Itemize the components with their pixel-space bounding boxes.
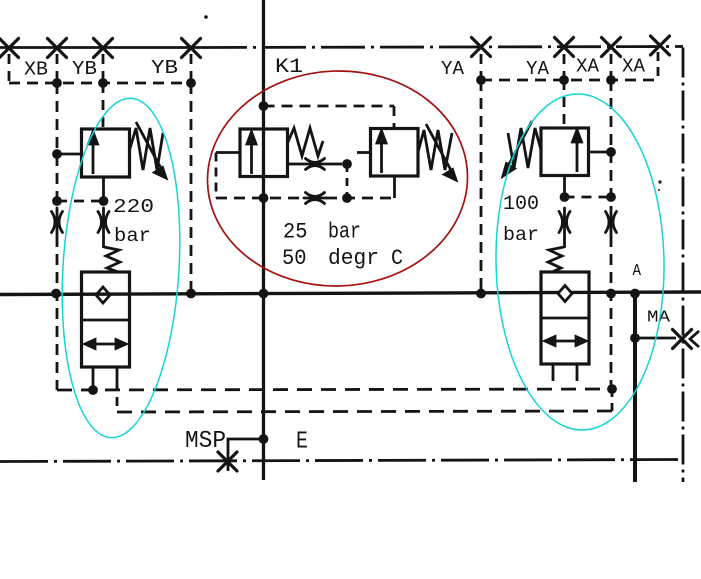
port X plug XA1 [602,38,621,57]
svg-text:50: 50 [282,246,307,271]
svg-text:XA: XA [576,56,600,78]
valve M2 arrow [377,131,386,173]
valve V1 spring [130,128,164,170]
svg-text:bar: bar [328,220,361,245]
svg-text:C: C [391,246,403,271]
wire mid drain bus y198 right [326,197,396,200]
wire XA2 stub down [657,52,660,80]
scan speck 2 [658,180,661,183]
valve V1 arrow [89,132,98,174]
manifold boundary top rail (dash-dot) [203,47,683,48]
wire YA1 stub down [480,54,483,80]
valve M1 spring [288,128,324,156]
node K1 drain [259,193,269,203]
node j347-198 [342,193,352,203]
scan speck [204,15,208,19]
wire right pilot bus y80 [481,79,658,82]
wire left pilot column x57 lower [56,236,59,390]
wire column x103 to valve top [102,83,105,129]
manifold boundary bottom rail (dash-dot) [0,460,683,462]
scan speck 3 [658,189,660,191]
restrictor x103 [98,208,109,236]
port X plug YA2 [555,38,574,57]
wire leg x117 down to L2 [116,382,119,412]
wire M2 drain down [393,177,396,199]
svg-text:XA: XA [622,56,646,78]
wire MA branch [635,337,676,340]
node j93-390 [88,385,98,395]
svg-text:220: 220 [113,196,154,218]
svg-text:A: A [633,262,642,281]
check block right divider [541,317,589,320]
valve V1 adjust arrow [136,122,166,178]
restrictor mid lower [304,193,326,204]
svg-text:bar: bar [114,225,151,247]
wire V1 bottom port [102,177,105,197]
svg-text:25: 25 [283,220,308,245]
svg-text:MSP: MSP [185,428,226,455]
wire YA2 stub down [563,54,566,80]
wire column x481 down to main line [480,80,483,294]
valve R adjust arrow [503,121,532,176]
node j611-197 [606,192,616,202]
wire j57-j103 link [57,200,104,203]
MA coupling chevron [690,331,699,347]
node j481-293 [476,289,486,299]
manifold boundary right edge (dash-dot) [682,48,685,483]
wire XA1 stub down [610,54,613,80]
svg-text:YA: YA [441,58,465,80]
wire drain bus L2 y412 [117,411,612,412]
port X plug YB2 [182,39,201,58]
valve V1 220bar relief: body [82,129,130,177]
svg-text:bar: bar [503,224,539,246]
valve R 100bar body [541,128,589,176]
valve M2 body [371,129,419,177]
svg-text:XB: XB [24,59,48,81]
MSP elbow [228,439,264,471]
svg-text:100: 100 [503,193,539,216]
node j611-152 [606,147,616,157]
wire below restrictor x103 [102,236,105,248]
wire column x191 down to main line [190,83,193,294]
wire XB stub down [8,54,11,83]
port X plug XA2 [651,36,670,55]
check block left double arrow [85,340,126,349]
valve R spring left [508,128,541,168]
port X MA [673,330,692,349]
wire restr to node [326,163,342,166]
wire j564-j611 link [565,196,612,199]
node j57-83 [52,78,62,88]
wire valve R right port [589,151,612,154]
wire M1 left stub [216,151,240,154]
check block right diamond [558,286,572,302]
wire M2 left stub [357,151,371,154]
port X plug YB1 [94,39,113,58]
restrictor left x57 [52,208,63,236]
svg-text:YB: YB [72,58,97,80]
wire below restrictor x564 [563,236,566,248]
node j481-80 [476,75,486,85]
wire XB horizontal pilot bus left y83 [9,82,191,85]
valve M1 body [240,129,288,177]
node E [259,434,269,444]
wire L2 right riser [611,389,614,411]
A line vertical [633,293,637,482]
valve M2 spring [418,130,452,170]
node j611-80 [606,75,616,85]
wire YB1b stub down [102,54,105,83]
node j57-293 [51,289,61,299]
check block left divider [82,319,130,322]
node j191-293 [186,289,196,299]
node j347-164 [342,159,352,169]
manifold boundary top rail solid left part [0,46,203,49]
check block left diamond [96,287,110,303]
svg-text:E: E [296,429,308,456]
restrictor mid upper [304,159,326,170]
wire K1 pilot top dashed [264,105,395,108]
check block left: body [82,272,130,367]
annotation cyan ellipse left [53,95,190,441]
node j635-293 [630,289,640,299]
node j57-154 [52,149,62,159]
spring above right check block [548,247,564,272]
port X plug XB [48,39,67,58]
node j191-83 [186,78,196,88]
valve R arrow [573,130,582,172]
wire M2 top entry [393,106,396,129]
annotation red ellipse [204,67,471,291]
node j57-201 [52,196,62,206]
wire restrictor mid feed [288,163,304,166]
check block right double arrow [545,337,586,346]
annotation cyan ellipse right [493,93,667,432]
wire V1 left port [57,153,82,156]
wire column x611 lower [610,236,613,389]
wire column x564 to valve R top [563,80,566,128]
node j103-83 [98,78,108,88]
node j635-338 [630,333,640,343]
valve M2 adjust arrow [426,124,456,180]
wire YB2 stub down [190,54,193,83]
wire mid drain bus y198 [216,197,304,200]
svg-text:degr: degr [328,246,379,271]
port X plug XB outer [0,39,19,58]
node j564-80 [559,75,569,85]
svg-text:YA: YA [526,58,550,80]
K1 vertical line [262,0,265,480]
valve M1 arrow [247,132,256,174]
main pressure line P [0,292,701,295]
node j611-293 [606,289,616,299]
check block right body [541,272,589,364]
port X MSP [218,452,237,471]
port X plug YA1 [472,38,491,57]
svg-text:YB: YB [151,57,178,79]
wire j347 down [346,164,349,198]
wire column x611 [610,80,613,208]
restrictor x564 [559,208,570,236]
node K1 main [259,289,269,299]
check block left legs [92,367,95,390]
check block right legs [552,364,555,381]
wire valve R bottom port [563,176,566,194]
node j564-197 [560,192,570,202]
node j612-389 [607,384,617,394]
node K1 pilot [259,101,269,111]
wire left pilot column x57 upper [56,83,59,208]
restrictor x611 [606,208,617,236]
wire drain bus L1 y390 [57,389,612,390]
spring above left check block [104,247,120,272]
wire M1 left drain down [215,153,218,199]
node j103-201 [99,196,109,206]
wire YB1 stub down [56,54,59,83]
